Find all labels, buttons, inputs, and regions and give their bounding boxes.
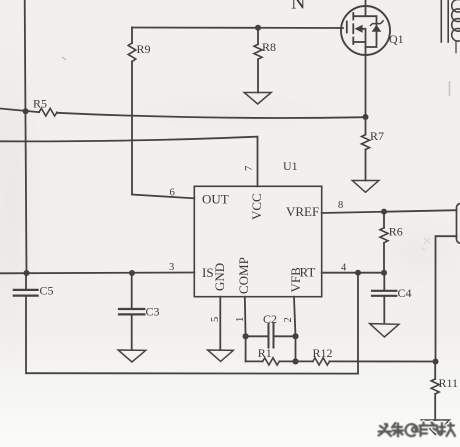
ground: below C3 <box>118 350 146 362</box>
svg-text:RT: RT <box>300 265 316 280</box>
resistor R11 <box>431 362 439 421</box>
svg-text:GND: GND <box>212 263 227 291</box>
svg-text:N: N <box>291 0 305 14</box>
capacitor C4 <box>372 273 396 324</box>
transformer winding (top right) <box>441 0 460 95</box>
node: left rail / C5 junction <box>24 270 30 276</box>
svg-text:C2: C2 <box>263 312 277 326</box>
channel bars <box>352 13 354 20</box>
svg-text:R12: R12 <box>313 346 333 360</box>
watermark 头条@卢飞块 hand-drawn strokes <box>379 423 456 437</box>
capacitor C2 <box>246 324 296 348</box>
resistor R8 <box>254 28 262 93</box>
capacitor C5 <box>14 273 38 373</box>
svg-text:R1: R1 <box>258 346 272 360</box>
node: C2 right junction <box>292 333 298 339</box>
svg-text:R9: R9 <box>137 42 151 56</box>
wire: GND pin 5 <box>219 297 221 350</box>
ground: below R11 <box>422 420 450 435</box>
wire: VFB node drop <box>295 336 297 361</box>
wire: Q1 source to junction <box>365 55 367 117</box>
wire: bottom rail <box>27 372 359 374</box>
component box at right edge <box>457 204 460 244</box>
transistor Q1 (N-MOSFET) <box>341 0 390 55</box>
node: R5/left-rail junction <box>23 108 29 114</box>
node: C3 junction <box>129 270 135 276</box>
resistor R9 <box>128 28 136 195</box>
wire: COMP pin 1 drop <box>244 297 247 337</box>
svg-text:U1: U1 <box>283 159 298 173</box>
resistor R7 <box>362 117 370 181</box>
wire: IS pin 3 row <box>0 272 194 275</box>
drain lead from top <box>365 0 367 16</box>
node: source/R7 junction <box>363 114 369 120</box>
wire: VREF pin 8 row <box>322 210 457 213</box>
faint stain marks <box>62 57 66 60</box>
svg-text:R11: R11 <box>439 376 459 390</box>
wire: COMP node drop to R1 <box>245 336 247 361</box>
node: R8 top junction <box>255 25 261 31</box>
svg-text:8: 8 <box>338 200 343 211</box>
resistor R5 <box>39 108 57 116</box>
wire: optocoupler branch vertical <box>436 236 457 361</box>
svg-text:C5: C5 <box>40 284 54 298</box>
svg-text:1: 1 <box>235 317 246 322</box>
svg-text:OUT: OUT <box>202 192 229 207</box>
svg-text:R7: R7 <box>370 129 384 143</box>
source arrow <box>355 25 363 33</box>
internal connections <box>353 16 376 47</box>
svg-text:4: 4 <box>341 263 347 274</box>
ground: pin 5 <box>208 350 234 361</box>
node: R6/C4 junction <box>381 270 387 276</box>
svg-text:VCC: VCC <box>249 193 264 220</box>
svg-text:Q1: Q1 <box>389 32 404 46</box>
ground: below C4 <box>370 324 399 337</box>
ground: below R7 <box>352 181 379 193</box>
svg-text:R8: R8 <box>262 40 276 54</box>
wire: pin4 drop to bottom rail <box>357 273 359 374</box>
svg-text:R6: R6 <box>389 225 403 239</box>
svg-text:7: 7 <box>244 166 255 171</box>
resistor R12 <box>296 358 436 365</box>
wire: R5 row horizontal <box>0 109 39 113</box>
svg-text:C4: C4 <box>398 286 412 300</box>
wire: VCC feed row <box>0 137 258 187</box>
node: VREF/R6 junction <box>381 209 387 215</box>
node: R12/R11 junction <box>433 359 439 365</box>
op-amp U1 IC body <box>194 186 321 296</box>
ground: below R8 <box>244 93 271 105</box>
wire: OUT pin 6 wire <box>132 195 194 199</box>
node: pin4 drop junction <box>355 270 361 276</box>
capacitor C3 <box>119 273 144 350</box>
svg-text:R5: R5 <box>33 97 47 111</box>
resistor R1 <box>246 358 296 365</box>
node: C2 left junction <box>243 333 249 339</box>
body diode <box>372 25 382 32</box>
wire: VFB pin 2 drop <box>294 297 296 337</box>
wire: pin 4 row <box>322 272 384 274</box>
svg-text:2: 2 <box>283 317 294 322</box>
svg-text:6: 6 <box>170 188 175 199</box>
svg-text:COMP: COMP <box>236 257 251 294</box>
node: R1/R12 junction <box>292 358 298 364</box>
wire: gate top row <box>132 27 343 30</box>
svg-text:C3: C3 <box>146 305 160 319</box>
svg-text:5: 5 <box>210 317 221 322</box>
gate bar <box>346 22 348 33</box>
resistor R6 <box>380 211 388 272</box>
svg-text:VREF: VREF <box>286 204 319 219</box>
svg-text:3: 3 <box>169 262 174 273</box>
wire: left vertical rail <box>25 0 27 273</box>
